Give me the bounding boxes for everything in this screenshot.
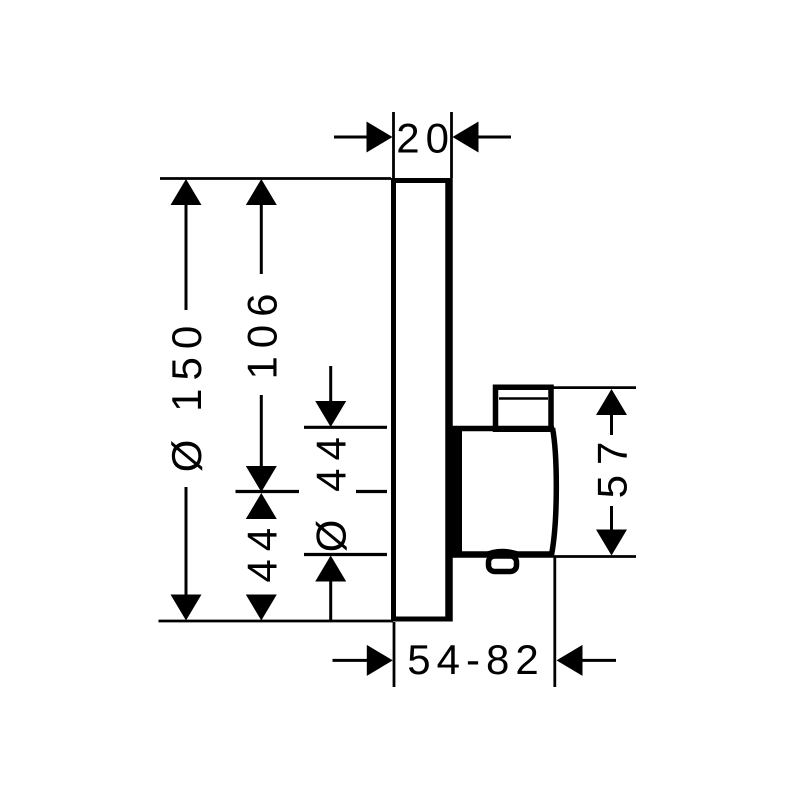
dim 20: right arrowhead bbox=[453, 122, 479, 153]
dim 54-82: right shaft bbox=[581, 659, 616, 662]
svg-text:106: 106 bbox=[238, 285, 285, 379]
dim 54-82: right arrowhead bbox=[557, 645, 583, 676]
dim 106: lower shaft bbox=[260, 395, 263, 467]
dim 57: upper shaft bbox=[610, 414, 613, 435]
handle body top edge bbox=[446, 426, 554, 432]
dim 44 left: top arrowhead (up) bbox=[246, 493, 277, 519]
dim 57: top arrowhead (up) bbox=[596, 389, 627, 415]
svg-text:Ø 150: Ø 150 bbox=[163, 318, 210, 472]
dim O150: lower shaft bbox=[185, 487, 188, 596]
handle stem (top step) bbox=[496, 387, 552, 429]
svg-text:57: 57 bbox=[589, 432, 636, 499]
tab under handle body bbox=[489, 556, 517, 572]
top extension line (left dims) bbox=[160, 177, 391, 180]
dim O44: upper shaft bbox=[329, 366, 332, 402]
dim O44: lower shaft bbox=[329, 580, 332, 621]
tick at y491 left segment bbox=[236, 490, 300, 493]
dim 54-82: right extension line bbox=[553, 556, 556, 687]
mounting plate (side profile rectangle) bbox=[394, 181, 449, 620]
dim O44: top tick bbox=[304, 426, 387, 429]
dim O150: bottom arrowhead bbox=[171, 595, 202, 621]
dim 57: bottom extension line bbox=[553, 555, 636, 558]
handle body left band (merged with plate edge) bbox=[446, 427, 463, 558]
dim 57: top extension line bbox=[553, 386, 636, 389]
handle stem inner line bbox=[499, 397, 548, 400]
dim 54-82: left arrowhead bbox=[367, 645, 393, 676]
tick at y491 right segment bbox=[356, 490, 387, 493]
dim O44: bottom arrowhead (up) bbox=[315, 556, 346, 582]
dome bump above tab bbox=[483, 551, 522, 556]
dim 57: bottom arrowhead (down) bbox=[596, 530, 627, 556]
dim 20: left shaft bbox=[334, 136, 368, 139]
plate right edge thick line bbox=[445, 178, 453, 622]
dim O150: top arrowhead bbox=[171, 179, 202, 205]
svg-text:20: 20 bbox=[396, 115, 455, 162]
dim O44: bottom tick bbox=[304, 553, 387, 556]
dim O44: top arrowhead (down) bbox=[315, 401, 346, 427]
dim 57: lower shaft bbox=[610, 506, 613, 531]
dim 20: left arrowhead bbox=[367, 122, 393, 153]
dim 54-82: left shaft bbox=[333, 659, 370, 662]
svg-text:54-82: 54-82 bbox=[407, 636, 544, 683]
dim 106: top arrowhead bbox=[246, 179, 277, 205]
handle body right edge bbox=[552, 428, 557, 555]
bottom extension line (left dims) bbox=[159, 620, 394, 623]
dim 106: bottom arrowhead (down) bbox=[246, 466, 277, 492]
dim 106: upper shaft bbox=[260, 204, 263, 274]
dim 20: left extension line bbox=[392, 112, 395, 178]
dim 44 left: bottom arrowhead bbox=[246, 595, 277, 621]
dim 20: right shaft bbox=[477, 136, 511, 139]
dim O150: upper shaft bbox=[185, 204, 188, 310]
dim 20: right extension line bbox=[450, 112, 453, 178]
dim 54-82: left extension line bbox=[393, 622, 396, 687]
svg-text:Ø 44: Ø 44 bbox=[308, 429, 355, 552]
svg-text:44: 44 bbox=[238, 520, 285, 583]
handle body bottom edge bbox=[446, 551, 553, 558]
